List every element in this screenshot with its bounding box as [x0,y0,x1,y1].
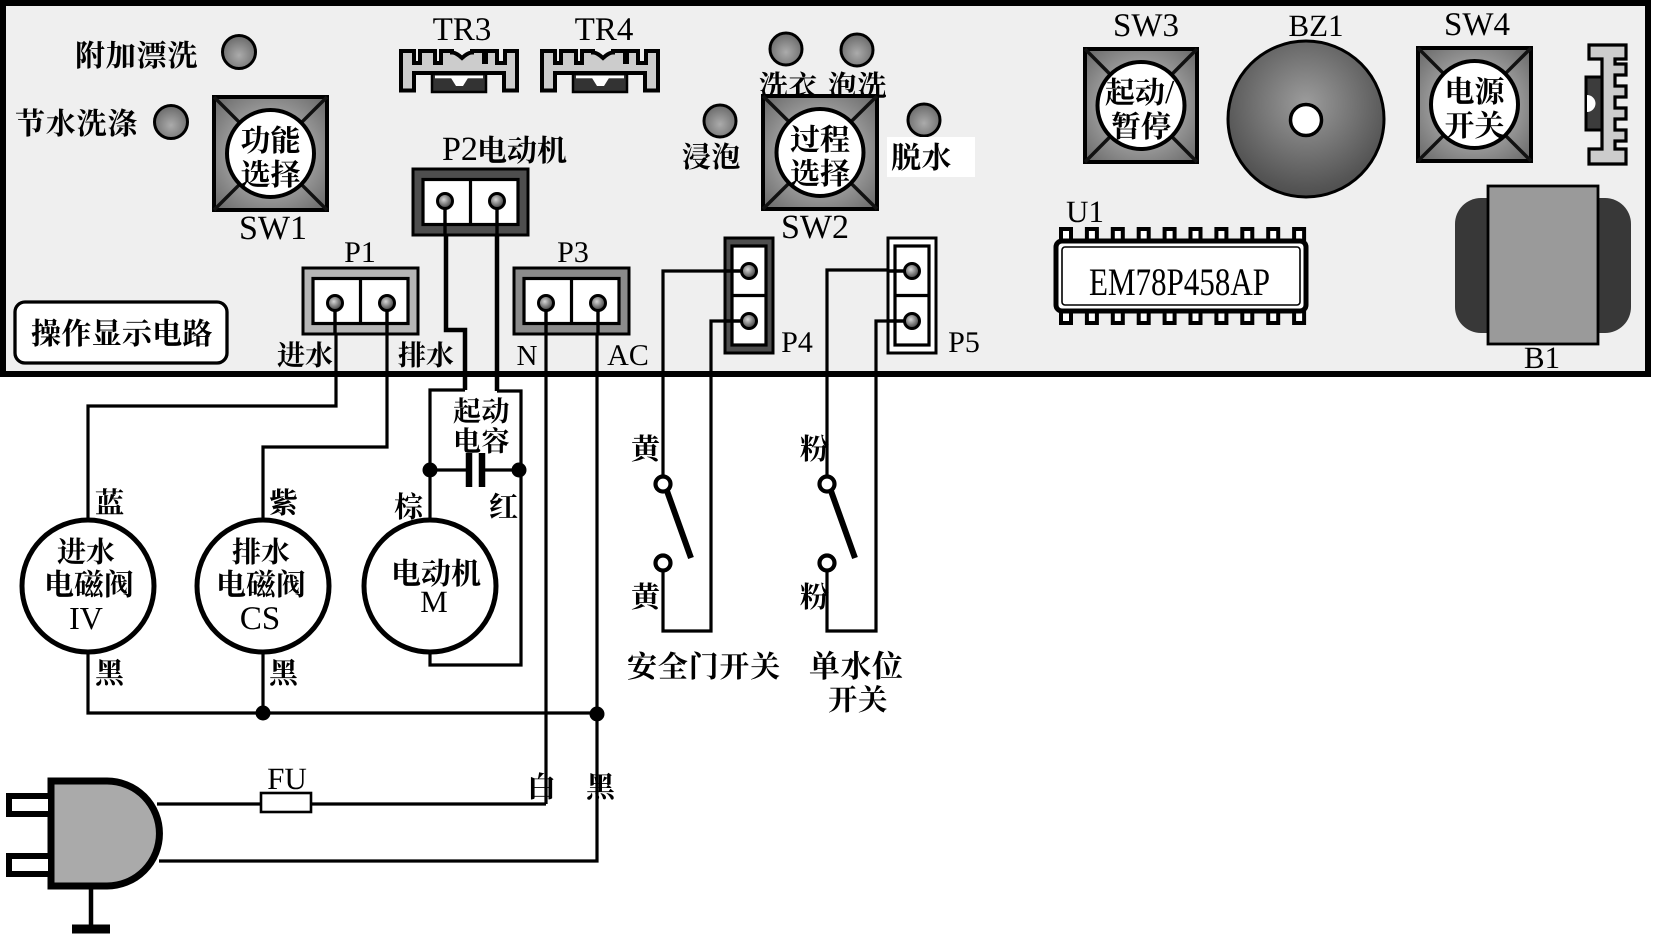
single water level switch [820,477,856,571]
plug prong lower [9,856,51,874]
capacitor plates [466,453,473,487]
label P5 [949,332,964,352]
label 开关 [829,685,857,712]
LED wash [770,33,802,65]
label 黑 mains [587,773,614,800]
solenoid valve IV [22,520,154,652]
LED water saving [155,106,188,139]
label SW2 [783,215,798,238]
LED additional rinse [223,36,256,69]
label 单水位 [810,651,839,680]
push switch SW2 process select [763,96,877,209]
heatsink TR4 [542,51,658,92]
label P2电动机 [443,138,460,160]
wire P1 pin2 (purple) to CS valve [263,303,387,522]
label P3 [558,242,573,262]
wire P5 bottom pin to level switch bottom [827,321,909,631]
connector P1 [303,268,418,334]
label 白 [531,772,554,799]
LED soak wash [841,34,873,66]
connector P2 motor [413,169,528,235]
transformer B1 core [1455,198,1631,333]
label 黑 below IV [96,659,123,686]
wire black rail down to plug lower lead [159,713,597,861]
safety door switch [656,477,692,571]
label 操作显示电路 [32,319,61,347]
label 浸泡 [683,142,711,169]
push switch SW1 function select [214,97,327,210]
vertical heatsink regulator [1586,45,1626,164]
wire P2 pin2 (red) down [495,201,500,391]
wire P3 AC pin down (black wire) [595,303,598,714]
wire P4 top pin to door switch top [663,271,748,477]
wire P1 pin1 (blue) to IV valve [88,303,336,522]
label B1 [1525,348,1543,368]
label BZ1 [1289,16,1307,36]
label 附加漂洗 [77,41,104,69]
label 蓝 [96,488,124,514]
wire capacitor-box left branch through motor [430,390,465,522]
solenoid valve CS [197,520,329,652]
mains plug body [51,781,159,886]
label SW3 [1115,14,1129,36]
label 粉 lower [800,582,828,609]
plug prong upper [9,796,51,814]
label TR3 [433,18,452,40]
junction dot left [423,463,438,478]
wire P3 N pin down (white wire) [544,303,547,804]
junction dot CS rail [256,706,271,721]
label EM78P458AP [1090,269,1107,295]
label N [517,346,536,365]
label 红 [490,493,517,519]
label 黑 below CS [270,659,297,686]
label 黄 upper [632,434,659,461]
connector P3 [514,268,629,334]
label SW4 [1446,13,1460,35]
capacitor right lead [485,468,521,471]
label TR4 [575,18,594,40]
label 脱水 with white patch [887,137,975,177]
label 节水洗涤 [16,108,44,136]
wire P2 pin1 (brown) to motor branch [446,201,465,390]
heatsink TR3 [401,51,517,92]
label 黄 lower [632,582,659,609]
connector P4 [725,238,773,353]
transformer B1 winding [1488,186,1598,344]
wire capacitor-box right branch around motor [430,391,521,665]
board title box [15,302,227,363]
label AC [607,345,628,365]
label U1 [1067,202,1088,223]
connector P5 [888,238,936,353]
motor M [364,520,496,652]
label 泡洗 [829,71,856,98]
label 起动 [454,397,481,423]
capacitor left lead [430,468,466,471]
wire IV bottom to common rail [88,651,597,713]
label 排水 [398,341,425,367]
label 洗衣 [760,71,788,98]
label 进水 [278,341,305,367]
LED soak [704,105,736,137]
label P1 [345,242,360,262]
wire CS bottom stub [261,651,264,713]
label 棕 [395,492,423,519]
IC U1 pins [1061,229,1071,242]
label FU [268,769,283,789]
wire white lead plug to fuse to N [157,802,546,805]
push switch SW4 power [1418,48,1531,161]
LED spin [908,104,940,136]
label 电容 [456,427,480,453]
wire P5 top pin to level switch top [827,270,909,477]
label SW1 [241,216,256,239]
wire P4 bottom pin to door switch bottom [663,321,748,631]
label 紫 [270,488,297,515]
junction dot right [512,463,527,478]
label P4 [782,332,797,352]
fuse FU [261,793,311,812]
label 粉 upper [800,434,828,461]
ground symbol [72,925,110,934]
push switch SW3 start/pause [1085,49,1197,162]
buzzer BZ1 [1228,41,1384,197]
IC U1 body [1056,241,1306,311]
junction dot AC rail [590,707,605,722]
operation display circuit board panel [3,3,1648,374]
ground lead [89,889,94,925]
label 安全门开关 [628,652,656,680]
